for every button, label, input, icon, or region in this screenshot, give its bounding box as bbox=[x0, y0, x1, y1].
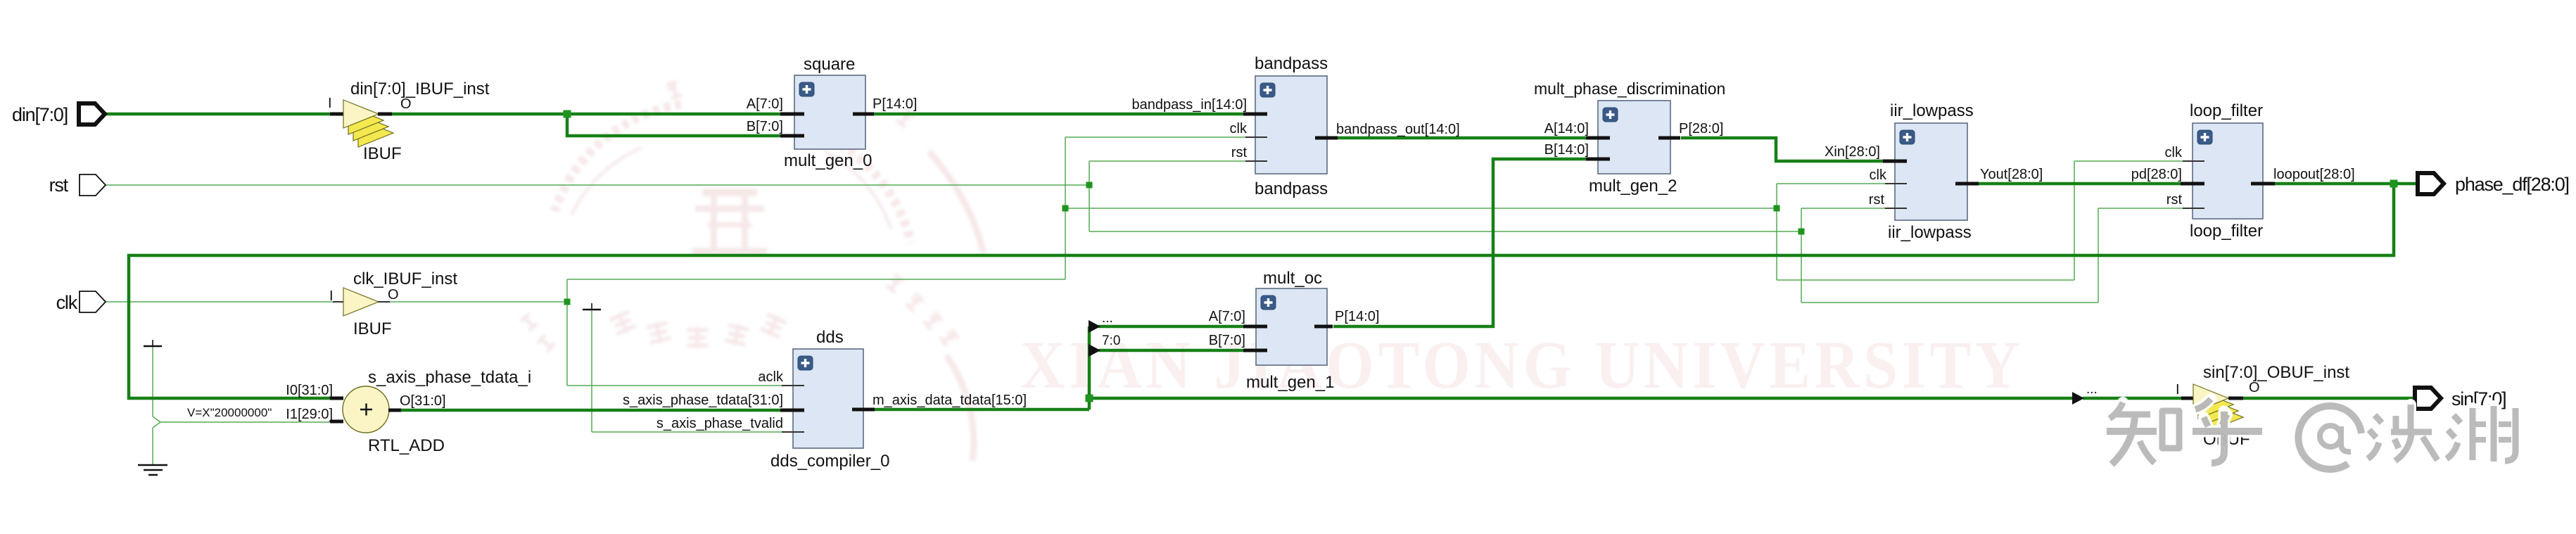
wire rst to loop_filter rst pin bbox=[2098, 208, 2183, 209]
svg-text:RTL_ADD: RTL_ADD bbox=[368, 436, 445, 455]
wire clk rail mid bbox=[1065, 208, 1777, 209]
bus tap arrow A bbox=[1089, 320, 1100, 333]
svg-text:V=X"20000000": V=X"20000000" bbox=[187, 406, 272, 419]
pin A[7:0] of mult_oc bbox=[1243, 325, 1267, 329]
junction m_axis bbox=[1086, 395, 1093, 402]
pin O of RTL_ADD bbox=[388, 409, 401, 412]
block bandpass bbox=[1255, 76, 1327, 174]
wire rst to bandpass rst pin bbox=[1089, 160, 1245, 162]
pin O of sin OBUF bbox=[2228, 397, 2243, 400]
net break chevron bbox=[153, 417, 160, 428]
svg-text:clk: clk bbox=[1870, 167, 1887, 183]
port rst bbox=[80, 174, 106, 196]
svg-text:loop_filter: loop_filter bbox=[2190, 222, 2263, 241]
wire rst vertical at iir bbox=[1801, 208, 1802, 303]
svg-text:iir_lowpass: iir_lowpass bbox=[1890, 101, 1974, 120]
svg-text:mult_gen_1: mult_gen_1 bbox=[1246, 373, 1334, 392]
pin rst of bandpass bbox=[1245, 160, 1267, 162]
power bar tvalid const bbox=[583, 309, 601, 311]
svg-text:s_axis_phase_tdata_i: s_axis_phase_tdata_i bbox=[368, 368, 531, 387]
wire tvalid to dds pin bbox=[592, 431, 782, 433]
svg-text:rst: rst bbox=[49, 174, 69, 196]
buffer din[7:0]_IBUF_inst bbox=[358, 119, 393, 147]
wire clk vertical at junction bbox=[566, 279, 568, 386]
pin loopout[28:0] of loop_filter bbox=[2251, 182, 2275, 186]
svg-text:din[7:0]_IBUF_inst: din[7:0]_IBUF_inst bbox=[350, 80, 490, 98]
wire din branch to square B bbox=[567, 114, 780, 136]
svg-text:pd[28:0]: pd[28:0] bbox=[2131, 167, 2182, 182]
svg-text:XIAN JIAOTONG UNIVERSITY: XIAN JIAOTONG UNIVERSITY bbox=[1020, 328, 2024, 402]
wire din IBUF out to square A bbox=[392, 113, 780, 116]
svg-text:rst: rst bbox=[1231, 145, 1248, 160]
pin m_axis_data_tdata[15:0] bbox=[852, 408, 875, 412]
svg-text:clk: clk bbox=[1230, 121, 1248, 136]
wire clk vertical at loop bbox=[2074, 161, 2075, 280]
svg-text:bandpass: bandpass bbox=[1255, 179, 1328, 198]
pin bandpass_in[14:0] bbox=[1243, 113, 1267, 116]
svg-text:iir_lowpass: iir_lowpass bbox=[1888, 223, 1972, 242]
junction rst A bbox=[1086, 182, 1093, 189]
wire clk to bandpass clk pin bbox=[1065, 136, 1245, 138]
svg-text:IBUF: IBUF bbox=[353, 319, 392, 338]
pin s_axis_phase_tdata[31:0] bbox=[780, 409, 804, 412]
wire const to RTL_ADD I1 bbox=[160, 421, 330, 423]
pin s_axis_phase_tvalid bbox=[782, 431, 804, 433]
svg-text:O: O bbox=[2249, 380, 2260, 395]
pin rst of loop_filter bbox=[2183, 208, 2204, 209]
pin P[14:0] of square bbox=[853, 113, 874, 116]
svg-text:I: I bbox=[329, 288, 334, 304]
wire feedback loopout to RTL_ADD I0 bbox=[129, 184, 2394, 398]
svg-text:s_axis_phase_tdata[31:0]: s_axis_phase_tdata[31:0] bbox=[623, 393, 783, 408]
ground bbox=[138, 465, 167, 475]
wire loopout to phase_df port bbox=[2275, 182, 2418, 186]
svg-text:clk: clk bbox=[2165, 145, 2183, 160]
svg-text:...: ... bbox=[2086, 382, 2098, 397]
pin B[7:0] of mult_oc bbox=[1243, 349, 1267, 352]
pin bandpass_out[14:0] bbox=[1315, 136, 1338, 140]
port sin[7:0] bbox=[2415, 388, 2441, 409]
svg-text:mult_phase_discrimination: mult_phase_discrimination bbox=[1534, 80, 1725, 98]
junction loopout bbox=[2390, 180, 2398, 188]
svg-text:Yout[28:0]: Yout[28:0] bbox=[1980, 167, 2043, 182]
wire clk to iir clk pin bbox=[1777, 183, 1885, 184]
wire mult_oc P to mult_gen_2 B bbox=[1333, 159, 1586, 326]
svg-text:A[7:0]: A[7:0] bbox=[1209, 309, 1245, 324]
port phase_df[28:0] bbox=[2418, 173, 2444, 194]
wire rst rail mid bbox=[1089, 231, 1801, 232]
svg-text:m_axis_data_tdata[15:0]: m_axis_data_tdata[15:0] bbox=[873, 393, 1027, 408]
svg-text:mult_oc: mult_oc bbox=[1263, 269, 1322, 288]
wire tvalid const vertical bbox=[591, 310, 592, 432]
svg-text:clk_IBUF_inst: clk_IBUF_inst bbox=[353, 269, 457, 288]
wire clk rail upper bbox=[567, 279, 1065, 280]
wire rst vertical at bandpass bbox=[1089, 161, 1090, 231]
wire din port to IBUF bbox=[104, 113, 330, 116]
svg-text:IBUF: IBUF bbox=[363, 144, 402, 163]
svg-text:loopout[28:0]: loopout[28:0] bbox=[2273, 167, 2355, 182]
svg-text:dds_compiler_0: dds_compiler_0 bbox=[770, 452, 889, 471]
wire m_axis slice to mult_oc B bbox=[1098, 349, 1243, 352]
svg-text:O: O bbox=[388, 287, 399, 303]
block dds / dds_compiler_0 bbox=[793, 349, 863, 448]
wire rst port to junction bbox=[103, 184, 1089, 186]
power bar constant V bbox=[144, 345, 162, 348]
block square / mult_gen_0 bbox=[794, 75, 865, 149]
wire clk vertical at bandpass bbox=[1065, 137, 1066, 279]
svg-text:O[31:0]: O[31:0] bbox=[400, 393, 446, 409]
pin aclk of dds bbox=[782, 385, 804, 386]
pin I0 of RTL_ADD bbox=[330, 397, 343, 400]
watermark text XIAN JIAOTONG UNIVERSITY bbox=[1020, 328, 2024, 402]
pin Xin[28:0] of iir_lowpass bbox=[1883, 160, 1907, 163]
junction clk B bbox=[1062, 205, 1069, 212]
pin I of sin OBUF bbox=[2181, 397, 2193, 400]
junction clk A bbox=[564, 299, 571, 305]
svg-text:Xin[28:0]: Xin[28:0] bbox=[1825, 144, 1880, 160]
wire clk to dds aclk pin bbox=[567, 385, 782, 386]
svg-text:clk: clk bbox=[56, 292, 78, 313]
wire square P to bandpass_in bbox=[874, 113, 1243, 116]
bus tap arrow B bbox=[1089, 344, 1100, 357]
svg-text:P[14:0]: P[14:0] bbox=[873, 96, 917, 112]
pin O of clk IBUF bbox=[378, 301, 390, 303]
svg-text:mult_gen_2: mult_gen_2 bbox=[1589, 177, 1677, 196]
svg-text:B[7:0]: B[7:0] bbox=[1209, 333, 1245, 348]
svg-text:A[14:0]: A[14:0] bbox=[1544, 121, 1589, 136]
pin A[14:0] of mult_gen_2 bbox=[1586, 136, 1610, 140]
svg-text:bandpass_out[14:0]: bandpass_out[14:0] bbox=[1336, 122, 1460, 137]
junction din bbox=[564, 110, 571, 118]
adder RTL_ADD bbox=[343, 386, 389, 433]
svg-text:sin[7:0]_OBUF_inst: sin[7:0]_OBUF_inst bbox=[2203, 363, 2349, 382]
pin clk of loop_filter bbox=[2183, 160, 2204, 162]
svg-text:bandpass: bandpass bbox=[1255, 54, 1328, 73]
pin clk of bandpass bbox=[1245, 136, 1267, 138]
wire rst to iir rst pin bbox=[1801, 208, 1885, 209]
pin O of din IBUF bbox=[378, 113, 392, 116]
buffer clk_IBUF_inst bbox=[343, 288, 379, 316]
junction rst B bbox=[1798, 229, 1805, 235]
svg-text:dds: dds bbox=[816, 328, 844, 347]
bus tap arrow OBUF bbox=[2072, 392, 2084, 405]
wire mult_gen_2 P to iir Xin bbox=[1681, 138, 1883, 161]
svg-text:I0[31:0]: I0[31:0] bbox=[286, 383, 333, 398]
wire OBUF out to sin port bbox=[2243, 397, 2415, 400]
wire dds m_axis out bbox=[875, 408, 1089, 412]
svg-text:I: I bbox=[2176, 382, 2180, 398]
buffer sin[7:0]_OBUF_inst bbox=[2208, 403, 2243, 431]
pin A[7:0] of square bbox=[780, 113, 804, 116]
pin I1 of RTL_ADD bbox=[330, 420, 343, 424]
wire const upper vertical bbox=[152, 346, 153, 417]
svg-text:aclk: aclk bbox=[758, 369, 784, 385]
wire rst rail low bbox=[1801, 302, 2098, 303]
wire m_axis slice to OBUF I bbox=[2083, 397, 2182, 400]
svg-text:rst: rst bbox=[2166, 192, 2183, 208]
svg-text:bandpass_in[14:0]: bandpass_in[14:0] bbox=[1132, 97, 1247, 113]
svg-text:B[7:0]: B[7:0] bbox=[747, 119, 783, 134]
pin I of din IBUF bbox=[330, 113, 343, 116]
svg-text:I: I bbox=[328, 96, 332, 111]
pin pd[28:0] of loop_filter bbox=[2181, 182, 2204, 186]
svg-text:P[28:0]: P[28:0] bbox=[1679, 121, 1723, 136]
wire clk port to IBUF bbox=[103, 301, 333, 303]
pin Yout[28:0] of iir_lowpass bbox=[1955, 182, 1979, 186]
pin rst of iir_lowpass bbox=[1885, 208, 1907, 209]
junction clk C bbox=[1774, 205, 1780, 212]
block iir_lowpass bbox=[1895, 123, 1967, 220]
svg-text:din[7:0]: din[7:0] bbox=[12, 104, 68, 125]
pin B[7:0] of square bbox=[780, 134, 804, 138]
pin clk of iir_lowpass bbox=[1885, 183, 1907, 184]
wire clk IBUF out bbox=[390, 301, 567, 303]
svg-text:A[7:0]: A[7:0] bbox=[747, 96, 783, 112]
svg-text:s_axis_phase_tvalid: s_axis_phase_tvalid bbox=[656, 416, 783, 431]
wire m_axis rail to OBUF bbox=[1089, 397, 2073, 400]
pin B[14:0] of mult_gen_2 bbox=[1586, 158, 1610, 161]
svg-text:O: O bbox=[400, 96, 412, 112]
svg-text:mult_gen_0: mult_gen_0 bbox=[784, 151, 872, 170]
svg-text:loop_filter: loop_filter bbox=[2190, 101, 2263, 120]
wire clk vertical at iir bbox=[1776, 184, 1777, 280]
block loop_filter bbox=[2193, 123, 2263, 219]
pin P[14:0] of mult_oc bbox=[1314, 325, 1333, 329]
wire clk to loop_filter clk pin bbox=[2074, 160, 2183, 162]
wire m_axis vertical bbox=[1088, 326, 1091, 409]
wire clk rail low bbox=[1777, 279, 2074, 281]
svg-text:I1[29:0]: I1[29:0] bbox=[286, 407, 333, 422]
block mult_phase_discrimination / mult_gen_2 bbox=[1598, 101, 1670, 174]
wire m_axis slice to mult_oc A bbox=[1098, 325, 1243, 329]
svg-text:P[14:0]: P[14:0] bbox=[1335, 309, 1379, 324]
pin I of clk IBUF bbox=[333, 301, 343, 303]
wire RTL_ADD O to dds tdata bbox=[401, 409, 780, 412]
block mult_oc / mult_gen_1 bbox=[1256, 288, 1327, 365]
wire bandpass_out to mult_gen_2 A bbox=[1338, 136, 1586, 140]
wire iir Yout to loop_filter pd bbox=[1979, 182, 2181, 186]
wire const lower vertical bbox=[152, 428, 153, 464]
svg-text:B[14:0]: B[14:0] bbox=[1544, 142, 1589, 158]
svg-text:rst: rst bbox=[1869, 192, 1885, 208]
watermark zhihu text bbox=[2107, 399, 2515, 469]
port din[7:0] bbox=[79, 103, 105, 125]
port clk bbox=[80, 291, 106, 312]
svg-text:...: ... bbox=[1102, 311, 1113, 326]
svg-text:phase_df[28:0]: phase_df[28:0] bbox=[2455, 174, 2569, 195]
svg-text:7:0: 7:0 bbox=[1102, 333, 1120, 348]
wire rst vertical at loop bbox=[2098, 208, 2099, 303]
svg-text:square: square bbox=[804, 55, 855, 74]
pin P[28:0] of mult_gen_2 bbox=[1658, 136, 1680, 140]
